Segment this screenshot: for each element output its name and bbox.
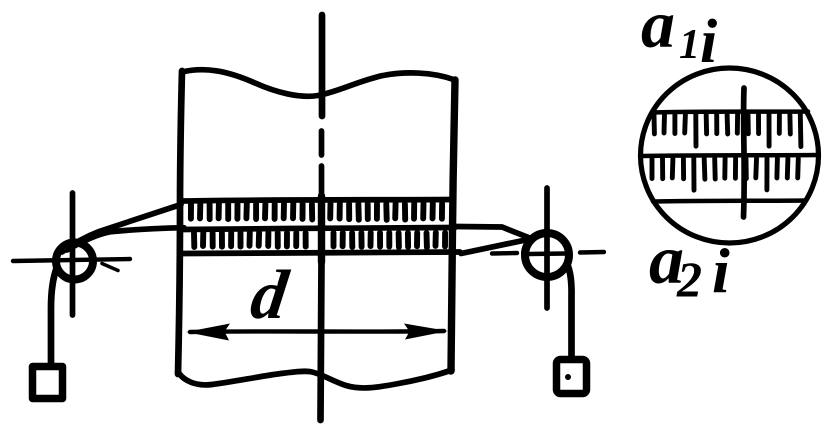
svg-text:d: d bbox=[246, 256, 294, 334]
svg-text:i: i bbox=[700, 8, 717, 76]
svg-text:i: i bbox=[712, 235, 730, 306]
svg-text:1: 1 bbox=[679, 22, 700, 68]
svg-text:2: 2 bbox=[676, 251, 702, 307]
svg-text:a: a bbox=[641, 0, 675, 62]
